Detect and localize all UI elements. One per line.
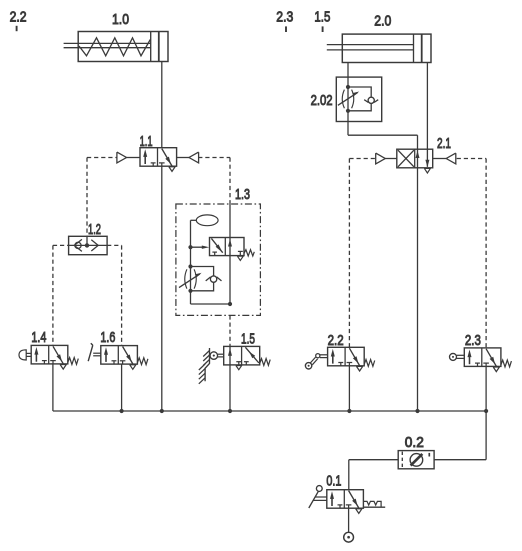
svg-text:1.4: 1.4 bbox=[31, 329, 46, 346]
shuttle valve 1.2 (OR element) bbox=[69, 236, 108, 254]
spring of valve 1.5 bbox=[260, 359, 271, 366]
cylinder 1.0 (single-acting, spring return) bbox=[64, 32, 168, 62]
signal line timer 1.3 down to valve 1.5 bbox=[229, 315, 231, 346]
pilot arrow right of valve 2.1 bbox=[433, 153, 456, 164]
svg-text:2.02: 2.02 bbox=[311, 92, 333, 109]
pilot arrow left of valve 2.1 bbox=[376, 153, 397, 164]
pilot line from timer 1.3 up to valve 1.1 bbox=[198, 158, 230, 205]
svg-text:0.1: 0.1 bbox=[326, 473, 341, 490]
wire valve 0.1 down to air supply bbox=[348, 508, 350, 532]
wire manifold down to service unit 0.2 bbox=[434, 411, 486, 460]
svg-text:1.1: 1.1 bbox=[140, 133, 153, 150]
wire cylinder 1.0 port down to valve 1.1 bbox=[161, 62, 163, 148]
label 1.5 (top connection) bbox=[314, 9, 330, 26]
label 1.2 bbox=[88, 221, 101, 238]
label 1.6 bbox=[100, 329, 115, 346]
label 0.1 bbox=[326, 473, 341, 490]
wire valve 2.1 supply down to manifold bbox=[417, 168, 419, 411]
wire timer valve vertical line bbox=[229, 204, 231, 304]
svg-text:2.0: 2.0 bbox=[374, 13, 391, 30]
wire cylinder 2.0 left port down bbox=[347, 63, 349, 136]
svg-text:1.5: 1.5 bbox=[314, 9, 330, 26]
flow control valve 2.02 (one-way throttle) bbox=[336, 77, 381, 121]
valve 0.1 (3/2 lever valve with detent) bbox=[327, 490, 364, 514]
valve 2.3 (3/2 pushbutton valve) bbox=[464, 348, 501, 372]
wire reservoir down-branch in 1.3 bbox=[190, 220, 192, 290]
wire cylinder 2.0 right port down to valve 2.1 bbox=[426, 63, 428, 150]
air supply source bbox=[344, 532, 354, 542]
valve 2.1 (4/2 way pneumatic valve, double pilot) bbox=[397, 149, 433, 173]
spring of valve 1.4 bbox=[68, 358, 79, 365]
connection tick 1.5 bbox=[322, 26, 324, 32]
service unit 0.2 (simplified) bbox=[398, 451, 434, 469]
label 2.2 (top left connection) bbox=[10, 9, 27, 26]
svg-text:1.0: 1.0 bbox=[112, 11, 129, 28]
label 1.5 (valve) bbox=[241, 330, 255, 347]
svg-text:2.3: 2.3 bbox=[465, 332, 481, 349]
junction timer output bbox=[228, 302, 232, 306]
manifold supply line bbox=[53, 410, 486, 412]
cylinder 2.0 (double-acting) bbox=[327, 34, 431, 62]
junction 2.1/manifold bbox=[415, 409, 419, 413]
label 1.1 bbox=[140, 133, 153, 150]
junction 1.1/manifold bbox=[160, 409, 164, 413]
air reservoir in 1.3 bbox=[191, 215, 219, 226]
valve 1.5 (3/2 roller valve, actuated) bbox=[224, 346, 260, 369]
junction reservoir/pilot bbox=[188, 245, 192, 249]
pilot arrow left of valve 1.1 bbox=[117, 152, 140, 163]
connection tick 2.2 bbox=[16, 26, 18, 31]
valve 1.6 (3/2 plunger valve) bbox=[101, 346, 138, 370]
spring of valve 2.3 bbox=[501, 360, 512, 367]
pilot line valve 2.2 up to valve 2.1 bbox=[349, 159, 375, 348]
pilot arrow right of valve 1.1 bbox=[177, 152, 199, 163]
junction 2.3/manifold bbox=[484, 409, 488, 413]
wire service unit 0.2 to valve 0.1 bbox=[349, 460, 398, 490]
label 1.4 bbox=[31, 329, 46, 346]
svg-text:1.2: 1.2 bbox=[88, 221, 101, 238]
label 2.2 (valve) bbox=[328, 332, 344, 349]
label 2.3 (valve) bbox=[465, 332, 481, 349]
label 2.0 bbox=[374, 13, 391, 30]
label 2.1 bbox=[437, 135, 451, 152]
wire valve 1.1 down to manifold bbox=[161, 166, 163, 411]
svg-text:1.5: 1.5 bbox=[241, 330, 255, 347]
junction 2.2/manifold bbox=[347, 409, 351, 413]
label 2.02 bbox=[311, 92, 333, 109]
label 2.3 (top connection) bbox=[276, 9, 293, 26]
valve 2.2 (3/2 roller lever valve) bbox=[328, 347, 365, 371]
signal line valve 1.4 to shuttle 1.2 bbox=[53, 245, 69, 345]
label 0.2 bbox=[405, 434, 424, 451]
svg-text:2.3: 2.3 bbox=[276, 9, 293, 26]
spring of valve 2.2 bbox=[364, 360, 375, 367]
label 1.0 bbox=[112, 11, 129, 28]
wire valve 1.5 to manifold bbox=[229, 365, 231, 411]
detent of valve 0.1 bbox=[363, 501, 385, 507]
enclosure frame timer 1.3 (dash-dot) bbox=[176, 204, 261, 315]
roller actuator with trip rail of valve 1.5 bbox=[199, 348, 224, 384]
signal line valve 1.6 to shuttle 1.2 bbox=[107, 245, 122, 345]
pushbutton actuator of valve 2.3 bbox=[450, 353, 465, 360]
wire valve 1.6 to manifold bbox=[121, 364, 123, 411]
label 1.3 bbox=[235, 186, 250, 203]
plunger actuator of valve 1.6 bbox=[88, 343, 101, 361]
wire 2.02 to valve 2.1 bbox=[348, 135, 418, 149]
wire 1.3 bottom branch bbox=[191, 291, 231, 304]
svg-text:1.6: 1.6 bbox=[100, 329, 115, 346]
valve 1.4 (3/2 pushbutton valve) bbox=[31, 345, 68, 369]
flow control valve in 1.3 (throttle + check) bbox=[179, 264, 222, 293]
pilot line from shuttle valve 1.2 up to valve 1.1 bbox=[87, 158, 117, 237]
junction 1.6/manifold bbox=[120, 409, 124, 413]
wire valve 1.4 to manifold bbox=[52, 364, 54, 411]
connection tick 2.3 bbox=[285, 26, 287, 32]
pilot line valve 2.3 up to valve 2.1 bbox=[457, 159, 486, 348]
wire valve 2.3 to manifold bbox=[485, 366, 487, 411]
svg-text:2.2: 2.2 bbox=[328, 332, 344, 349]
lever actuator of valve 0.1 bbox=[309, 486, 327, 508]
svg-text:0.2: 0.2 bbox=[405, 434, 424, 451]
pushbutton actuator of valve 1.4 bbox=[19, 350, 31, 360]
valve 1.1 (3/2 way pneumatic valve, double pilot) bbox=[140, 148, 177, 172]
valve 1.3 timer 3/2 valve bbox=[210, 238, 255, 261]
svg-text:2.1: 2.1 bbox=[437, 135, 451, 152]
pilot arrow into timer valve bbox=[191, 246, 210, 249]
wire valve 2.2 to manifold bbox=[348, 366, 350, 411]
svg-text:2.2: 2.2 bbox=[10, 9, 27, 26]
roller lever actuator of valve 2.2 bbox=[305, 354, 327, 369]
junction 1.5/manifold bbox=[228, 409, 232, 413]
svg-text:1.3: 1.3 bbox=[235, 186, 250, 203]
spring of valve 1.6 bbox=[137, 358, 148, 365]
